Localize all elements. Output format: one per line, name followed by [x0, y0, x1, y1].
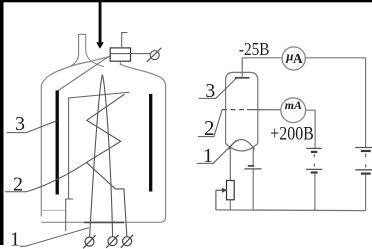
wire below middle battery: [314, 174, 316, 210]
svg-text:1: 1: [10, 229, 20, 249]
anode battery stack (middle): [306, 148, 322, 172]
bottom terminal 3 circle with slash: [121, 235, 133, 248]
stub lead below inner box: [65, 199, 67, 231]
triode envelope bottom cap: [226, 144, 258, 152]
zigzag filament winding: [87, 94, 127, 236]
triode tube envelope: [226, 72, 258, 143]
electrode bar 3 (left thick bar): [56, 91, 59, 195]
electrode bar (right thick bar): [149, 94, 152, 192]
anode lead up: [241, 58, 243, 78]
inner box electrode (left wall and top edge): [69, 92, 130, 199]
vessel top-right outline from seal box to right wall: [41, 61, 165, 222]
cathode right leg: [252, 148, 254, 166]
pointer for label 1 right: [197, 140, 236, 163]
pointer for label 3 right: [199, 78, 236, 98]
rheostat wiper arrow: [216, 188, 227, 210]
lead from seal box to top terminal: [131, 53, 151, 55]
right rail upper: [365, 58, 367, 148]
anode plate: [235, 77, 250, 79]
grid battery stack (right rail): [355, 148, 372, 174]
wire below rheostat: [229, 200, 231, 210]
darker segment of vessel bottom edge: [84, 221, 124, 223]
right rail lower: [365, 175, 367, 211]
lead from electrode 3 to seal box: [58, 56, 111, 91]
svg-text:+200В: +200В: [270, 125, 314, 145]
pointer for label 1 left: [20, 228, 89, 247]
microammeter uA: [282, 47, 305, 70]
bottom circuit wire: [216, 209, 366, 212]
seal box (feedthrough): [110, 48, 130, 61]
vessel neck left wall with flange: [71, 34, 86, 65]
faint inner bottom line of vessel: [41, 209, 65, 211]
top terminal circle with slash: [147, 48, 161, 62]
bracket above seal box: [122, 33, 128, 48]
pointer for label 3 left: [7, 121, 57, 133]
top border line: [0, 0, 372, 2]
left border bar: [0, 0, 4, 245]
light-beam arrow into vessel: [96, 0, 104, 49]
tall filament spike with legs to terminals: [90, 75, 113, 237]
wire from anode to microammeter: [242, 57, 282, 59]
bottom terminal 2 circle with slash: [106, 235, 118, 248]
grid dashed line: [222, 109, 247, 111]
inner box bottom hook: [65, 198, 73, 200]
wire grid to milliammeter: [247, 109, 281, 111]
wire from microammeter to right rail: [305, 57, 365, 59]
rheostat box: [227, 181, 235, 200]
svg-text:-25В: -25В: [239, 39, 270, 59]
vessel neck right wall flaring inward: [86, 34, 104, 66]
filament battery: [244, 166, 261, 169]
pointer for label 2 left: [5, 162, 87, 191]
svg-text:mA: mA: [285, 98, 302, 112]
pointer for label 2 right: [198, 110, 222, 137]
svg-text:3: 3: [15, 113, 25, 135]
cathode left leg: [229, 148, 231, 181]
milliammeter mA: [281, 98, 306, 123]
wire below filament battery: [252, 169, 254, 210]
vessel envelope left wall and shoulder: [41, 56, 110, 216]
wire from milliammeter to middle rail: [306, 110, 316, 148]
cathode filament dome: [229, 140, 255, 150]
bottom terminal 1 circle with slash: [83, 235, 95, 248]
svg-text:A: A: [293, 51, 303, 66]
